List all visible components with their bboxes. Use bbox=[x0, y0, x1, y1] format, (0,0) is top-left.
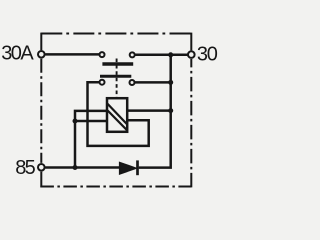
wire coil left terminal lower branch bbox=[75, 120, 107, 123]
relay coil K1 winding diagonal 2 bbox=[108, 110, 127, 130]
contact NO left bbox=[100, 52, 105, 57]
wire coil left terminal upper + vertical to node 85 bbox=[75, 111, 107, 168]
junction node 30 bus / NC-right bbox=[168, 80, 173, 85]
terminal 30A bbox=[38, 51, 45, 58]
enclosure border top-right stub bbox=[190, 33, 192, 51]
wire 30A terminal to NO-left contact bbox=[45, 53, 99, 56]
svg-text:30: 30 bbox=[197, 44, 218, 66]
terminal 30 bbox=[188, 51, 195, 58]
contact NC right bbox=[130, 80, 135, 85]
enclosure border left edge (dash-dot) bbox=[40, 59, 42, 163]
relay coil K1 box bbox=[107, 98, 127, 132]
enclosure border top-left stub bbox=[40, 33, 42, 51]
relay contact bar bridge (lower, NC closed) bbox=[100, 75, 131, 78]
svg-text:30A: 30A bbox=[1, 43, 34, 65]
enclosure border bottom-left stub bbox=[40, 172, 42, 188]
wire NC-right contact to right bus bbox=[135, 81, 171, 84]
junction node 30 bus top bbox=[168, 52, 173, 57]
contact NO right bbox=[130, 52, 135, 57]
terminal 85 bbox=[38, 164, 45, 171]
svg-text:85: 85 bbox=[15, 157, 35, 179]
wire NO-right contact to terminal 30 bbox=[135, 54, 188, 57]
relay actuator linkage (dashed) bbox=[116, 59, 118, 98]
enclosure border bottom edge (dash-dot) bbox=[40, 186, 191, 188]
enclosure border top edge (dash-dot) bbox=[41, 33, 191, 35]
junction node on 85 wire bbox=[73, 165, 78, 170]
contact NC left bbox=[100, 80, 105, 85]
diode V1 cathode bar bbox=[136, 160, 139, 175]
wire coil right terminal to right bus bbox=[127, 109, 171, 112]
junction node 30 bus / coil right bbox=[168, 108, 173, 113]
wire vertical bus right (node to diode cathode) bbox=[139, 55, 171, 168]
relay coil K1 winding diagonal 1 bbox=[108, 104, 127, 124]
diode V1 anode triangle bbox=[120, 162, 137, 174]
relay contact bar movable (upper, NO position) bbox=[102, 62, 133, 65]
wire NC-left contact loop to coil right side bbox=[88, 82, 149, 146]
enclosure border right edge (dash-dot) bbox=[190, 59, 192, 187]
wire terminal 85 to diode anode bbox=[45, 166, 119, 169]
junction node coil-left / 85 branch bbox=[73, 119, 78, 124]
